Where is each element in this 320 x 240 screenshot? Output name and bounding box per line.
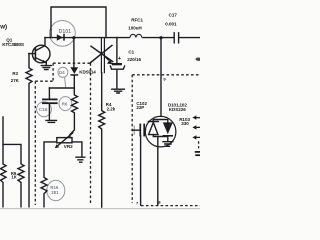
svg-text:27K: 27K: [11, 78, 20, 83]
svg-text:KTC3880S: KTC3880S: [2, 42, 24, 47]
svg-text:D101: D101: [59, 29, 72, 35]
svg-text:C16: C16: [39, 107, 48, 113]
svg-text:B: B: [158, 200, 161, 205]
svg-text:RFC1: RFC1: [131, 18, 143, 23]
svg-text:C1: C1: [128, 50, 134, 55]
svg-text:+: +: [118, 56, 122, 62]
svg-text:330: 330: [181, 121, 189, 126]
svg-text:KDS226: KDS226: [169, 107, 187, 112]
svg-text:C17: C17: [169, 12, 178, 17]
svg-text:22P: 22P: [136, 105, 144, 110]
svg-text:KDS914: KDS914: [79, 69, 96, 74]
svg-text:281: 281: [51, 190, 59, 195]
svg-text:0.001: 0.001: [165, 22, 177, 27]
svg-text:1K: 1K: [11, 175, 16, 180]
svg-text:100uH: 100uH: [128, 26, 142, 31]
svg-text:D4: D4: [59, 70, 65, 75]
svg-text:VR2: VR2: [64, 144, 73, 149]
svg-text:220/16: 220/16: [127, 57, 141, 62]
svg-text:w): w): [0, 24, 7, 31]
svg-text:R6: R6: [62, 102, 68, 107]
svg-text:R3: R3: [12, 71, 18, 76]
svg-text:2.2k: 2.2k: [107, 107, 116, 112]
